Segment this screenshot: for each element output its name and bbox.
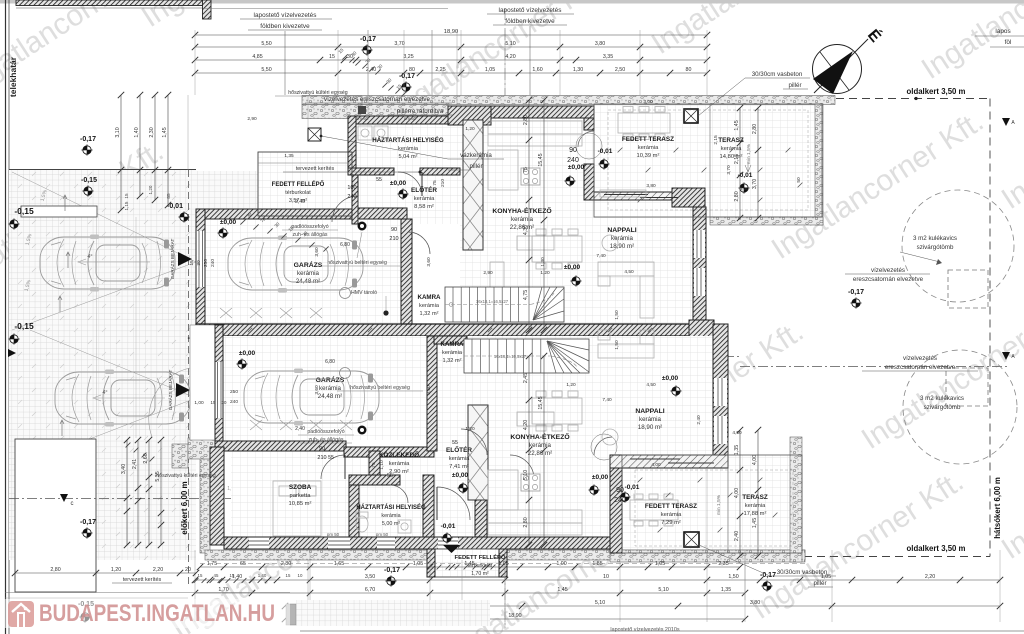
svg-text:240: 240: [230, 399, 238, 405]
svg-text:padlóösszefolyó: padlóösszefolyó: [307, 429, 344, 435]
svg-text:24,48 m²: 24,48 m²: [318, 393, 342, 400]
door arc eloter B: [437, 487, 470, 520]
svg-text:FEDETT TERASZ: FEDETT TERASZ: [645, 503, 697, 510]
svg-text:pm 50: pm 50: [356, 116, 369, 121]
right dim columns upper terrace: [739, 108, 741, 218]
svg-text:2,15: 2,15: [713, 135, 719, 145]
top-left neighbour wall hatched bar: [16, 0, 203, 6]
soakaway square lower: [946, 368, 988, 406]
svg-text:±0,00: ±0,00: [452, 472, 469, 479]
line under top-left wall: [16, 7, 202, 9]
svg-text:1,45: 1,45: [752, 518, 758, 528]
svg-text:3,40: 3,40: [121, 464, 127, 474]
svg-text:2,20: 2,20: [925, 574, 935, 580]
wall stub below door upper: [584, 164, 594, 200]
svg-text:szivárgótömb: szivárgótömb: [924, 404, 961, 411]
svg-text:2,40: 2,40: [295, 426, 305, 432]
svg-text:hátsókert 6,00 m: hátsókert 6,00 m: [993, 477, 1002, 539]
svg-text:90: 90: [391, 227, 397, 233]
dining table upper konyha: [532, 236, 582, 262]
upper terrace pillar: [684, 109, 698, 123]
svg-text:4,00: 4,00: [651, 462, 661, 468]
svg-text:-0,17: -0,17: [80, 136, 96, 143]
svg-text:1,50: 1,50: [614, 310, 620, 320]
svg-text:±0,00: ±0,00: [220, 219, 237, 226]
svg-text:80: 80: [409, 67, 415, 73]
svg-text:2,41: 2,41: [132, 459, 138, 469]
compass north arrow: [813, 25, 886, 94]
wall garage B left: [215, 325, 223, 441]
svg-text:3,80: 3,80: [646, 183, 656, 189]
svg-text:6,70: 6,70: [365, 587, 375, 593]
svg-text:22,86 m²: 22,86 m²: [528, 450, 552, 457]
svg-text:90: 90: [616, 487, 624, 494]
svg-text:3,60: 3,60: [426, 257, 432, 267]
svg-text:18,90: 18,90: [444, 29, 459, 35]
svg-text:3,50: 3,50: [365, 574, 375, 580]
gravel band lower bottom: [205, 550, 805, 560]
svg-text:15,45: 15,45: [538, 396, 544, 409]
lower terrace boundary: [622, 455, 802, 553]
garage door opening B: [216, 362, 223, 418]
gravel band upper terrace bottom: [710, 217, 823, 225]
svg-text:szivárgótömb: szivárgótömb: [917, 244, 954, 251]
partition kozlekedo/haztartasi: [369, 451, 380, 485]
svg-text:parketta: parketta: [290, 493, 312, 499]
svg-text:100: 100: [347, 185, 356, 191]
svg-text:padlóösszefolyó: padlóösszefolyó: [291, 224, 328, 230]
svg-text:vázkerámia: vázkerámia: [460, 152, 492, 159]
svg-text:-0,17: -0,17: [384, 567, 400, 574]
svg-text:210: 210: [440, 179, 446, 187]
svg-text:3,10: 3,10: [115, 127, 121, 137]
svg-text:±0,00: ±0,00: [662, 375, 679, 382]
stove icon lower: [521, 474, 540, 491]
svg-text:15: 15: [329, 54, 335, 60]
svg-text:zuh- és állógás: zuh- és állógás: [293, 232, 328, 238]
svg-text:kerámia: kerámia: [449, 456, 470, 462]
svg-text:c: c: [71, 501, 74, 507]
svg-text:15: 15: [211, 400, 216, 405]
svg-text:10,85 m²: 10,85 m²: [289, 501, 312, 507]
svg-text:hőszivattyú beltéri egység: hőszivattyú beltéri egység: [350, 385, 410, 391]
svg-text:3,70: 3,70: [394, 41, 404, 47]
svg-text:hőszivattyú beltéri egység: hőszivattyú beltéri egység: [327, 260, 387, 266]
wall garage top right segment: [355, 208, 407, 219]
car driveway upper: [40, 235, 175, 292]
svg-text:2,50: 2,50: [615, 67, 625, 73]
svg-text:3,60: 3,60: [426, 385, 432, 395]
armchair circle lower nappali: [602, 429, 618, 445]
szoba left wall: [210, 447, 224, 545]
svg-text:250: 250: [203, 259, 209, 267]
svg-text:1,15: 1,15: [124, 201, 129, 210]
svg-text:1,50: 1,50: [728, 574, 738, 580]
svg-text:1,45: 1,45: [464, 561, 474, 567]
svg-text:vízelvezetés ereszcsatornán el: vízelvezetés ereszcsatornán elvezetve: [324, 96, 430, 103]
svg-text:1,40: 1,40: [134, 127, 140, 137]
svg-text:vízelvezetés: vízelvezetés: [871, 267, 905, 274]
gravel band lower terrace bottom: [610, 550, 805, 562]
svg-text:3,60: 3,60: [314, 247, 320, 257]
wall garage B right: [427, 336, 437, 451]
svg-text:4,50: 4,50: [646, 382, 656, 388]
sofa lower nappali: [598, 344, 654, 358]
right dim columns lower terrace: [739, 430, 741, 556]
svg-text:2,90: 2,90: [247, 116, 257, 122]
svg-text:2,25: 2,25: [435, 67, 445, 73]
dining table lower terrace: [630, 500, 678, 520]
svg-text:oldalkert 3,50 m: oldalkert 3,50 m: [907, 544, 966, 553]
svg-text:TERASZ: TERASZ: [742, 494, 768, 501]
svg-text:1,20: 1,20: [566, 382, 576, 388]
svg-text:15,45: 15,45: [538, 153, 544, 166]
svg-text:KAMRA: KAMRA: [417, 294, 441, 301]
svg-text:1,20: 1,20: [111, 567, 121, 573]
svg-text:pm 50: pm 50: [376, 532, 389, 537]
top extension lines: [194, 30, 196, 95]
svg-text:5,04 m²: 5,04 m²: [399, 154, 418, 160]
svg-text:pillér: pillér: [813, 580, 826, 587]
slope labels 1,5% with arrows: [64, 195, 66, 211]
door arc entrance eloter: [332, 196, 358, 222]
svg-text:zuh- és állógás: zuh- és állógás: [309, 437, 344, 443]
svg-text:3 m2 kulékavics: 3 m2 kulékavics: [920, 395, 964, 402]
svg-text:3,60: 3,60: [314, 385, 320, 395]
svg-text:-0,17: -0,17: [80, 519, 96, 526]
svg-text:1,45: 1,45: [557, 587, 567, 593]
svg-text:pillér: pillér: [469, 163, 482, 170]
long right chains: [528, 100, 530, 330]
ticks along party wall: [248, 328, 252, 332]
lower unit room floors: [223, 336, 427, 440]
windows in bottom wall: [249, 538, 269, 549]
svg-text:8,58 m²: 8,58 m²: [414, 204, 434, 210]
bottom boundary line: [300, 630, 1024, 632]
svg-text:1,20: 1,20: [465, 126, 475, 132]
svg-text:hőszivattyú kültéri egység: hőszivattyú kültéri egység: [156, 473, 216, 479]
svg-text:GARÁZS: GARÁZS: [294, 260, 323, 269]
svg-text:3,70: 3,70: [726, 165, 732, 175]
door arc terasz upper: [578, 131, 594, 147]
svg-text:1,05: 1,05: [655, 561, 665, 567]
svg-text:kerámia: kerámia: [661, 512, 682, 518]
svg-text:kerámia: kerámia: [529, 442, 552, 449]
bottom dimension rows: [200, 566, 740, 568]
tick cluster top centre: [342, 54, 347, 59]
wall nappali east: [693, 207, 706, 324]
top dimension rows: [195, 34, 707, 36]
svg-text:45: 45: [214, 573, 219, 578]
svg-text:90: 90: [569, 147, 577, 154]
svg-text:kerámia: kerámia: [638, 145, 659, 151]
svg-text:16x18,1=16,5x27: 16x18,1=16,5x27: [476, 299, 509, 304]
soakaway circle lower: [903, 350, 1017, 464]
svg-text:30: 30: [196, 260, 202, 266]
tv cabinet upper: [600, 190, 646, 197]
wardrobe upper nappali: [490, 262, 504, 320]
entry arrow triangles: [443, 545, 460, 553]
svg-text:4°: 4°: [102, 390, 107, 396]
svg-text:55: 55: [328, 455, 334, 461]
sliding door upper terrace: [604, 194, 648, 196]
gravel band along top facade: [302, 96, 835, 105]
haztartasi bottom wall: [348, 168, 394, 175]
svg-text:3,35: 3,35: [603, 54, 613, 60]
logo house icon: [8, 601, 34, 627]
haztartasi top wall: [348, 116, 458, 124]
svg-text:NAPPALI: NAPPALI: [635, 408, 664, 415]
svg-text:240: 240: [347, 194, 356, 200]
svg-text:2,40: 2,40: [696, 415, 702, 425]
car garage upper: [228, 236, 363, 293]
kitchen cabinets upper north: [488, 121, 582, 134]
svg-text:75: 75: [523, 167, 529, 173]
svg-text:pm 50: pm 50: [327, 532, 340, 537]
svg-text:kerámia: kerámia: [419, 303, 440, 309]
svg-text:kerámia: kerámia: [381, 513, 400, 519]
svg-text:előkert 6,00 m: előkert 6,00 m: [180, 481, 189, 534]
svg-text:3,00: 3,00: [643, 99, 653, 105]
svg-text:1,32 m²: 1,32 m²: [443, 358, 462, 364]
dense tick cluster bottom left: [194, 578, 199, 583]
svg-text:4,00: 4,00: [752, 455, 758, 465]
svg-text:4,85: 4,85: [252, 54, 262, 60]
window sills east walls: [694, 230, 705, 258]
bottom extension lines: [194, 550, 196, 622]
svg-text:±0,00: ±0,00: [568, 164, 585, 171]
svg-text:240: 240: [210, 259, 216, 267]
svg-text:kerámia: kerámia: [442, 350, 463, 356]
svg-text:2,35: 2,35: [718, 561, 728, 567]
svg-text:2,80: 2,80: [523, 115, 529, 125]
svg-text:55: 55: [376, 177, 382, 183]
kitchen island upper: [517, 236, 554, 250]
svg-text:2,90: 2,90: [483, 270, 493, 276]
diagonal tick cluster left: [240, 219, 245, 224]
svg-text:-0,15: -0,15: [14, 206, 34, 216]
svg-text:240: 240: [614, 497, 626, 504]
svg-text:-0,01: -0,01: [598, 148, 613, 155]
svg-text:16x18,1=16,5x27: 16x18,1=16,5x27: [494, 354, 527, 359]
svg-text:210: 210: [317, 455, 326, 461]
svg-text:kerámia: kerámia: [511, 216, 534, 223]
svg-text:3,80: 3,80: [750, 600, 760, 606]
svg-text:kerámia: kerámia: [611, 235, 634, 242]
wall garage top: [196, 209, 361, 219]
kitchen cabinets lower south: [488, 510, 582, 523]
top gray site bar: [0, 0, 1024, 4]
svg-text:KÖZLEKEDŐ: KÖZLEKEDŐ: [379, 450, 419, 459]
svg-text:3,70: 3,70: [752, 179, 758, 189]
svg-text:7,40: 7,40: [602, 397, 612, 403]
svg-text:1,45: 1,45: [734, 120, 740, 130]
ramp extension lines: [96, 217, 98, 438]
svg-text:1,45: 1,45: [162, 127, 168, 137]
scattered inner ticks upper terrace: [618, 148, 623, 153]
svg-text:20: 20: [185, 567, 191, 573]
svg-text:5,50: 5,50: [261, 67, 271, 73]
oldalkert dashed boundary top: [836, 98, 990, 100]
svg-text:hőszivattyú kültéri egység: hőszivattyú kültéri egység: [288, 90, 348, 96]
svg-text:1,20: 1,20: [540, 270, 550, 276]
svg-text:65: 65: [240, 561, 246, 567]
svg-text:1,10: 1,10: [379, 460, 385, 470]
svg-text:10: 10: [603, 574, 609, 580]
svg-text:3 m2 kulékavics: 3 m2 kulékavics: [913, 235, 957, 242]
svg-text:ereszcsatornán elvezetve: ereszcsatornán elvezetve: [853, 276, 924, 283]
main north wall kitchen: [448, 106, 594, 118]
x-marks garage floor lower: [250, 420, 262, 430]
garage entrance arrow upper: [178, 252, 192, 266]
svg-text:telekhatár: telekhatár: [8, 56, 18, 97]
svg-text:tervezett kerítés: tervezett kerítés: [123, 577, 162, 583]
svg-text:6,80: 6,80: [325, 359, 335, 365]
svg-text:-0,01: -0,01: [625, 484, 640, 491]
svg-text:földben kivezetve: földben kivezetve: [505, 18, 555, 25]
svg-text:1,20: 1,20: [465, 426, 475, 432]
door arc terasz B: [594, 437, 612, 455]
x-marks garage floor upper: [220, 308, 232, 318]
gravel band upper terrace right: [815, 104, 823, 225]
lower terrace pillar: [684, 532, 699, 547]
svg-text:föl: föl: [1005, 39, 1012, 46]
party wall right step: [689, 320, 714, 337]
svg-text:55: 55: [452, 440, 458, 446]
party wall between units: [196, 324, 714, 336]
svg-text:1,30: 1,30: [573, 67, 583, 73]
svg-text:kerámia: kerámia: [639, 416, 662, 423]
vazkeramia pillar: [308, 128, 321, 141]
svg-text:210: 210: [389, 236, 398, 242]
svg-text:4,00: 4,00: [734, 488, 740, 498]
svg-text:HÁZTARTÁSI HELYISÉG: HÁZTARTÁSI HELYISÉG: [356, 503, 426, 511]
centre dash-dot vertical line: [504, 8, 506, 628]
svg-text:lapostető vízelvezetés: lapostető vízelvezetés: [499, 7, 562, 14]
garage B door swing arc: [149, 368, 190, 437]
left plot boundary telekhatar double line: [5, 0, 7, 634]
oldalkert dashed boundary bottom: [700, 556, 990, 558]
svg-text:5,10: 5,10: [505, 41, 515, 47]
svg-text:55: 55: [387, 473, 393, 479]
soakaway square upper: [948, 270, 988, 308]
neighbour plot horizontal line: [9, 169, 196, 171]
svg-text:15: 15: [189, 260, 195, 266]
top-left wall end post: [203, 0, 212, 19]
kamra B walls: [434, 336, 467, 344]
svg-text:1,85: 1,85: [592, 561, 602, 567]
svg-text:50: 50: [796, 177, 802, 183]
hatsokert dashed boundary right: [989, 99, 991, 557]
partition haztartasi/eloter B: [423, 475, 434, 537]
door arc kozlekedo B: [461, 429, 487, 455]
car garage lower: [244, 369, 379, 426]
svg-text:tervezett kerítés: tervezett kerítés: [296, 166, 335, 172]
svg-text:-0,15: -0,15: [81, 177, 97, 184]
wall nappali east B: [713, 324, 728, 468]
svg-text:kerámia: kerámia: [398, 146, 419, 152]
car driveway lower: [55, 370, 190, 427]
svg-text:2,80: 2,80: [281, 561, 291, 567]
svg-text:2,80: 2,80: [50, 567, 60, 573]
svg-text:1,50: 1,50: [614, 340, 620, 350]
svg-text:30: 30: [222, 400, 227, 405]
svg-text:kerámia: kerámia: [389, 461, 410, 467]
svg-text:1,35: 1,35: [721, 587, 731, 593]
svg-text:FEDETT FELLÉPŐ: FEDETT FELLÉPŐ: [455, 553, 506, 561]
eloter B right wall: [475, 451, 487, 537]
shaft wall x-braced lower: [468, 405, 488, 500]
svg-text:2,15: 2,15: [734, 154, 740, 164]
svg-text:5,00 m²: 5,00 m²: [382, 521, 400, 527]
svg-text:4,75: 4,75: [523, 290, 529, 300]
svg-text:pm 50: pm 50: [404, 116, 417, 121]
north wall door stub: [584, 118, 594, 130]
svg-text:1,05: 1,05: [485, 67, 495, 73]
svg-text:lapos: lapos: [995, 28, 1010, 35]
svg-text:30/30cm vasbeton: 30/30cm vasbeton: [752, 71, 803, 78]
svg-text:2,20: 2,20: [153, 567, 163, 573]
bottom tile strip: [296, 600, 490, 626]
stove icon upper: [521, 168, 540, 185]
forecourt white strip garage B: [190, 325, 215, 440]
svg-text:5,50: 5,50: [261, 41, 271, 47]
svg-text:18,90: 18,90: [508, 613, 521, 619]
dining table upper terrace: [618, 113, 670, 133]
svg-text:±0,00: ±0,00: [564, 264, 581, 271]
driveway tiled paving: [9, 170, 196, 560]
svg-text:1,65: 1,65: [334, 561, 344, 567]
driveway diagonal guide lines: [12, 172, 196, 262]
svg-text:kerámia: kerámia: [745, 503, 766, 509]
svg-text:4,20: 4,20: [505, 54, 515, 60]
gray pillar bottom: [286, 604, 296, 625]
svg-text:85: 85: [166, 193, 171, 199]
bottom white rect dims: [15, 572, 196, 574]
ramp white rect: [21, 206, 97, 217]
wall fedett terasz B left: [610, 468, 622, 553]
left dimension columns: [120, 95, 122, 210]
shaft wall x-braced upper: [463, 120, 483, 250]
dark dot belteri lower: [358, 426, 367, 435]
armchair circle upper nappali: [602, 235, 618, 251]
section marker C right: [709, 362, 717, 370]
neighbour garage white rect bottom-left: [15, 439, 96, 592]
svg-text:1,05: 1,05: [413, 561, 423, 567]
svg-text:10,39 m²: 10,39 m²: [637, 153, 660, 159]
svg-text:KONYHA-ÉTKEZŐ: KONYHA-ÉTKEZŐ: [510, 432, 569, 441]
svg-text:2,80: 2,80: [752, 124, 758, 134]
svg-text:-0,01: -0,01: [441, 523, 456, 530]
porch slab outline B: [434, 549, 506, 577]
gravel band lower left: [200, 447, 210, 553]
svg-text:75: 75: [432, 180, 438, 186]
dining table lower konyha: [532, 398, 582, 424]
svg-text:NAPPALI: NAPPALI: [607, 227, 636, 234]
svg-text:17,88 m²: 17,88 m²: [744, 511, 767, 517]
svg-text:80: 80: [686, 67, 692, 73]
logo band background: [2, 599, 290, 628]
svg-text:15: 15: [230, 573, 235, 578]
wall garage right: [401, 219, 412, 325]
svg-text:1,05: 1,05: [821, 574, 831, 580]
svg-text:7,40: 7,40: [596, 253, 606, 259]
porch slab outline: [258, 152, 352, 216]
svg-text:lapostető vízelvezetés 2010s: lapostető vízelvezetés 2010s: [610, 627, 680, 633]
svg-text:10: 10: [298, 573, 303, 578]
wc haztartasi B: [356, 516, 368, 532]
svg-text:±0,00: ±0,00: [390, 180, 407, 187]
